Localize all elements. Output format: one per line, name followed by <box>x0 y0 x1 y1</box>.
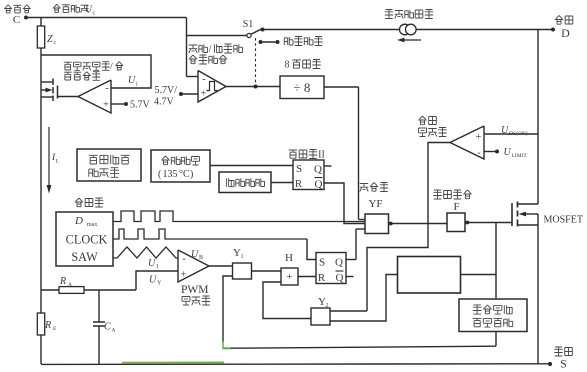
svg-text:/: / <box>209 44 212 55</box>
svg-text:PWM: PWM <box>181 284 208 296</box>
svg-text:S1: S1 <box>243 19 254 30</box>
svg-text:Z: Z <box>47 34 53 45</box>
svg-text:Q: Q <box>314 164 322 176</box>
svg-text:Y: Y <box>157 281 162 287</box>
svg-text:-: - <box>477 148 480 159</box>
svg-text:R: R <box>44 320 51 331</box>
svg-text:YF: YF <box>368 198 382 210</box>
svg-text:1: 1 <box>241 254 244 260</box>
svg-text:U: U <box>191 249 199 260</box>
svg-text:Q: Q <box>335 257 343 269</box>
svg-text:-: - <box>105 83 108 94</box>
svg-text:i: i <box>136 82 138 88</box>
svg-text:5.7V: 5.7V <box>130 100 151 111</box>
svg-text:R: R <box>295 178 303 190</box>
svg-text:F: F <box>453 201 459 213</box>
svg-text:+: + <box>201 89 207 100</box>
svg-text:MOSFET: MOSFET <box>544 215 583 226</box>
svg-text:E: E <box>53 326 57 332</box>
svg-text:D: D <box>74 215 83 227</box>
svg-text:A: A <box>68 282 72 288</box>
svg-text:+: + <box>181 270 187 281</box>
svg-text:°C: °C <box>179 169 190 180</box>
svg-text:+: + <box>103 100 109 111</box>
svg-text:D: D <box>561 26 570 40</box>
svg-text:SAW: SAW <box>71 250 98 264</box>
svg-text:Q: Q <box>315 179 323 191</box>
svg-text:A: A <box>112 328 116 334</box>
svg-text:H: H <box>285 252 293 264</box>
svg-text:8: 8 <box>285 60 290 71</box>
svg-text:L: L <box>56 159 60 165</box>
svg-text:U: U <box>148 258 156 269</box>
svg-text:135: 135 <box>163 169 178 180</box>
svg-text:U: U <box>149 275 157 286</box>
svg-text:-: - <box>202 74 205 85</box>
svg-text:U: U <box>504 147 512 158</box>
svg-text:LIMIT: LIMIT <box>512 153 528 159</box>
svg-text:II: II <box>318 150 325 161</box>
svg-text:C: C <box>13 14 20 26</box>
svg-text:-: - <box>182 254 185 265</box>
svg-text:c: c <box>54 40 57 46</box>
svg-text:S: S <box>560 357 567 371</box>
svg-text:Q: Q <box>336 272 344 284</box>
svg-text:CLOCK: CLOCK <box>66 233 108 247</box>
svg-text:/: / <box>110 62 113 72</box>
svg-text:5.7V/: 5.7V/ <box>155 85 178 96</box>
svg-text:+: + <box>476 132 482 143</box>
svg-text:÷ 8: ÷ 8 <box>294 80 311 95</box>
svg-text:S: S <box>319 257 325 269</box>
svg-text:): ) <box>190 169 193 180</box>
svg-text:C: C <box>104 322 111 333</box>
svg-text:+: + <box>286 271 292 283</box>
svg-text:DS(ON): DS(ON) <box>509 130 528 137</box>
svg-text:S: S <box>296 163 302 175</box>
svg-text:2: 2 <box>326 303 329 309</box>
svg-text:R: R <box>59 276 66 287</box>
svg-text:1: 1 <box>156 264 159 270</box>
svg-text:R: R <box>318 272 326 284</box>
svg-text:B: B <box>199 255 203 261</box>
svg-text:U: U <box>501 125 509 136</box>
svg-text:U: U <box>128 75 136 86</box>
svg-text:c: c <box>93 11 96 17</box>
svg-text:max: max <box>87 222 97 228</box>
svg-text:4.7V: 4.7V <box>154 97 175 108</box>
